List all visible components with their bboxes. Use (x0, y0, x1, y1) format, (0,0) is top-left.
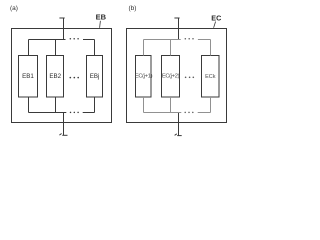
svg-text:(a): (a) (10, 5, 18, 12)
svg-text:ECk: ECk (205, 74, 216, 80)
svg-text:EC(j+2): EC(j+2) (162, 74, 180, 80)
svg-text:EC(j+1): EC(j+1) (135, 74, 153, 80)
svg-text:EB: EB (96, 13, 107, 22)
svg-text:EBj: EBj (90, 73, 100, 80)
svg-text:EB1: EB1 (22, 73, 34, 80)
svg-text:(b): (b) (129, 5, 137, 12)
svg-text:EB2: EB2 (49, 73, 61, 80)
svg-text:EC: EC (211, 13, 221, 22)
